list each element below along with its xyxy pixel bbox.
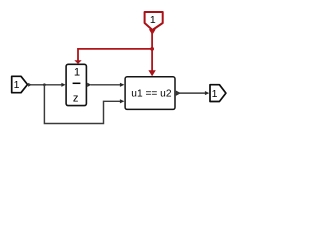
junction node bbox=[43, 83, 46, 86]
red wire flag to relational operator (vertical, with source arrowhead) bbox=[148, 29, 155, 76]
unit delay block 1/z bbox=[66, 64, 86, 105]
svg-text:1: 1 bbox=[74, 66, 80, 78]
event trigger flag port (red) bbox=[145, 12, 163, 30]
outport Out1 bbox=[210, 85, 226, 102]
wire Unit Delay to relational operator input 1 (with source arrowhead) bbox=[87, 83, 124, 87]
svg-text:u1 == u2: u1 == u2 bbox=[131, 88, 172, 99]
inport In1 bbox=[12, 76, 28, 92]
wire relational operator to Out1 (with source arrowhead) bbox=[176, 91, 210, 96]
wire In1 to Unit Delay (with source arrowhead) bbox=[28, 83, 66, 87]
wire branch to relational operator input 2 bbox=[44, 85, 124, 124]
red wire branch to unit delay bbox=[74, 49, 152, 64]
svg-text:1: 1 bbox=[212, 88, 218, 100]
relational operator block u1 == u2 bbox=[125, 77, 175, 110]
svg-text:1: 1 bbox=[14, 79, 20, 91]
red junction node bbox=[150, 47, 154, 51]
svg-text:z: z bbox=[73, 93, 79, 105]
svg-text:1: 1 bbox=[150, 14, 156, 26]
